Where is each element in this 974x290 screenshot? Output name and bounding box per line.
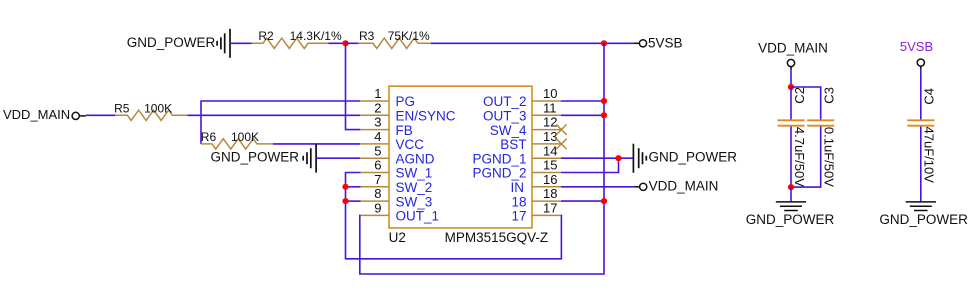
svg-text:R2: R2 xyxy=(258,29,274,43)
svg-text:AGND: AGND xyxy=(396,151,435,166)
svg-text:4.7uF/50V: 4.7uF/50V xyxy=(792,127,807,187)
svg-text:18: 18 xyxy=(511,194,526,209)
svg-text:GND_POWER: GND_POWER xyxy=(127,35,216,50)
svg-text:5VSB: 5VSB xyxy=(900,39,933,54)
svg-text:PGND_2: PGND_2 xyxy=(472,166,526,181)
svg-text:4: 4 xyxy=(374,129,381,144)
wire OUT_1 loop (pin 9 to output bus) xyxy=(360,43,604,274)
IC U2 MPM3515GQV-Z body xyxy=(389,86,532,228)
svg-text:VDD_MAIN: VDD_MAIN xyxy=(758,41,828,56)
pin 8 (SW_3) stub + number xyxy=(360,200,389,202)
node junction PGND xyxy=(615,155,621,161)
node junction 5VSB/vertical xyxy=(601,40,607,46)
svg-text:R3: R3 xyxy=(359,29,375,43)
pin 12 (SW_4) stub + number xyxy=(532,129,561,131)
svg-text:BST: BST xyxy=(500,137,526,152)
svg-text:75K/1%: 75K/1% xyxy=(388,29,430,43)
pin 16 (IN) stub + number xyxy=(532,186,561,188)
ground GND_POWER (top left) xyxy=(229,29,231,58)
svg-text:GND_POWER: GND_POWER xyxy=(649,150,738,165)
node junction SW_2 xyxy=(342,184,348,190)
capacitor C3 xyxy=(807,119,834,121)
wire C2 top lead xyxy=(790,87,792,120)
pin 9 (OUT_1) stub + number xyxy=(360,214,389,216)
wire junction to R3 xyxy=(346,42,359,44)
wire pin 15 PGND_2 riser xyxy=(561,158,619,172)
svg-text:3: 3 xyxy=(374,115,381,130)
svg-text:5VSB: 5VSB xyxy=(648,36,683,51)
svg-text:0.1uF/50V: 0.1uF/50V xyxy=(822,127,837,187)
pin 18 (18) stub + number xyxy=(532,200,561,202)
wire pin 14 PGND_1 to ground xyxy=(561,157,633,159)
pin 17 (17) stub + number xyxy=(532,214,561,216)
ground GND_POWER (right, pins 14/15) xyxy=(632,144,634,173)
ground GND_POWER (below C4) xyxy=(906,201,936,203)
wire C3 bottom return xyxy=(791,127,821,188)
svg-text:GND_POWER: GND_POWER xyxy=(210,150,299,165)
svg-text:OUT_2: OUT_2 xyxy=(483,94,527,109)
wire R3 to 5VSB terminal xyxy=(431,42,633,44)
pin 13 (BST) stub + number xyxy=(532,143,561,145)
wire ground to R2 xyxy=(230,42,252,44)
node junction C2/C3 bottom xyxy=(788,184,794,190)
svg-text:U2: U2 xyxy=(389,230,406,245)
wire to ground xyxy=(790,187,792,201)
svg-text:C2: C2 xyxy=(792,87,807,104)
svg-text:PGND_1: PGND_1 xyxy=(472,151,526,166)
svg-text:VDD_MAIN: VDD_MAIN xyxy=(649,179,719,194)
wire C2 bottom lead xyxy=(790,127,792,188)
svg-text:8: 8 xyxy=(374,186,381,201)
pin 10 (OUT_2) stub + number xyxy=(532,100,561,102)
wire ground to pin 5 xyxy=(316,157,360,159)
svg-text:VCC: VCC xyxy=(396,137,425,152)
svg-text:R6: R6 xyxy=(201,130,217,144)
node junction OUT_2 xyxy=(601,98,607,104)
svg-text:VDD_MAIN: VDD_MAIN xyxy=(3,107,70,122)
wire C4 bottom lead xyxy=(920,127,922,202)
pin 5 (AGND) stub + number xyxy=(360,157,389,159)
svg-text:7: 7 xyxy=(374,172,381,187)
pin 11 (OUT_3) stub + number xyxy=(532,114,561,116)
wire pin 18 xyxy=(561,200,604,202)
svg-text:2: 2 xyxy=(374,100,381,115)
svg-text:R5: R5 xyxy=(114,102,130,116)
wire VDD_MAIN to R5 xyxy=(86,114,116,116)
pin 6 (SW_1) stub + number xyxy=(360,172,389,174)
svg-text:1: 1 xyxy=(374,86,381,101)
svg-text:47uF/10V: 47uF/10V xyxy=(922,127,937,184)
node junction pin 18 xyxy=(601,198,607,204)
svg-text:SW_3: SW_3 xyxy=(396,194,433,209)
svg-text:PG: PG xyxy=(396,94,416,109)
svg-text:C3: C3 xyxy=(822,87,837,104)
svg-text:17: 17 xyxy=(511,209,526,224)
svg-text:14: 14 xyxy=(543,143,557,158)
terminal 5VSB (top right) xyxy=(633,42,639,44)
pin 14 (PGND_1) stub + number xyxy=(532,157,561,159)
node junction SW_3 xyxy=(342,198,348,204)
svg-text:14.3K/1%: 14.3K/1% xyxy=(290,29,342,43)
capacitor C4 xyxy=(907,119,934,121)
svg-text:C4: C4 xyxy=(922,88,937,105)
node junction C2/C3 top xyxy=(788,84,794,90)
pin 3 (FB) stub + number xyxy=(360,129,389,131)
ground GND_POWER (pin 5 AGND) xyxy=(315,144,317,173)
resistor R3 xyxy=(358,38,431,48)
svg-text:GND_POWER: GND_POWER xyxy=(746,212,835,227)
wire R5 to pin 2 EN/SYNC xyxy=(187,114,360,116)
svg-text:IN: IN xyxy=(511,180,525,195)
node junction OUT_3 xyxy=(601,112,607,118)
wire FB riser (junction to pin 3) xyxy=(346,43,361,129)
svg-text:100K: 100K xyxy=(144,102,172,116)
no-connect X pin 13 xyxy=(556,139,566,149)
wire VDD_MAIN down to junction xyxy=(790,70,792,87)
svg-text:9: 9 xyxy=(374,201,381,216)
wire pin 11 OUT_3 xyxy=(561,114,604,116)
wire R6 to pin 4 VCC xyxy=(273,143,361,145)
svg-text:18: 18 xyxy=(543,186,557,201)
svg-text:10: 10 xyxy=(543,86,557,101)
resistor R6 xyxy=(201,139,273,149)
wire PG branch (pin 1 to R6) xyxy=(201,101,361,144)
ground GND_POWER (below C2) xyxy=(776,201,806,203)
wire 5VSB down to C4 xyxy=(920,70,922,120)
pin 15 (PGND_2) stub + number xyxy=(532,172,561,174)
wire SW_2 to chain xyxy=(346,186,361,188)
terminal VDD_MAIN (right) xyxy=(634,186,640,188)
svg-text:6: 6 xyxy=(374,158,381,173)
pin 2 (EN/SYNC) stub + number xyxy=(360,114,389,116)
svg-text:GND_POWER: GND_POWER xyxy=(879,212,968,227)
wire pin 16 IN xyxy=(561,186,634,188)
pin 1 (PG) stub + number xyxy=(360,100,389,102)
svg-text:17: 17 xyxy=(543,201,557,216)
pin 7 (SW_2) stub + number xyxy=(360,186,389,188)
wire R2 to junction xyxy=(329,42,346,44)
wire pin 10 OUT_2 xyxy=(561,100,604,102)
resistor R2 xyxy=(252,38,329,48)
svg-text:FB: FB xyxy=(396,123,413,138)
svg-text:13: 13 xyxy=(543,129,557,144)
svg-text:EN/SYNC: EN/SYNC xyxy=(396,109,456,124)
svg-text:16: 16 xyxy=(543,172,557,187)
svg-text:15: 15 xyxy=(543,158,557,173)
wire C3 feed xyxy=(791,87,821,120)
node junction R2/R3/FB xyxy=(342,40,348,46)
capacitor C2 xyxy=(778,119,805,121)
svg-text:SW_1: SW_1 xyxy=(396,166,433,181)
svg-text:100K: 100K xyxy=(231,130,259,144)
svg-text:SW_2: SW_2 xyxy=(396,180,433,195)
svg-text:SW_4: SW_4 xyxy=(490,123,527,138)
wire SW_3 to chain xyxy=(346,200,361,202)
svg-text:OUT_1: OUT_1 xyxy=(396,209,440,224)
svg-text:11: 11 xyxy=(543,100,557,115)
no-connect X pin 12 xyxy=(556,124,566,134)
svg-text:5: 5 xyxy=(374,143,381,158)
svg-text:OUT_3: OUT_3 xyxy=(483,109,527,124)
pin 4 (VCC) stub + number xyxy=(360,143,389,145)
wire SW_1 chain xyxy=(346,173,562,259)
svg-text:MPM3515GQV-Z: MPM3515GQV-Z xyxy=(445,230,549,245)
resistor R5 xyxy=(115,110,187,120)
svg-text:12: 12 xyxy=(543,115,557,130)
